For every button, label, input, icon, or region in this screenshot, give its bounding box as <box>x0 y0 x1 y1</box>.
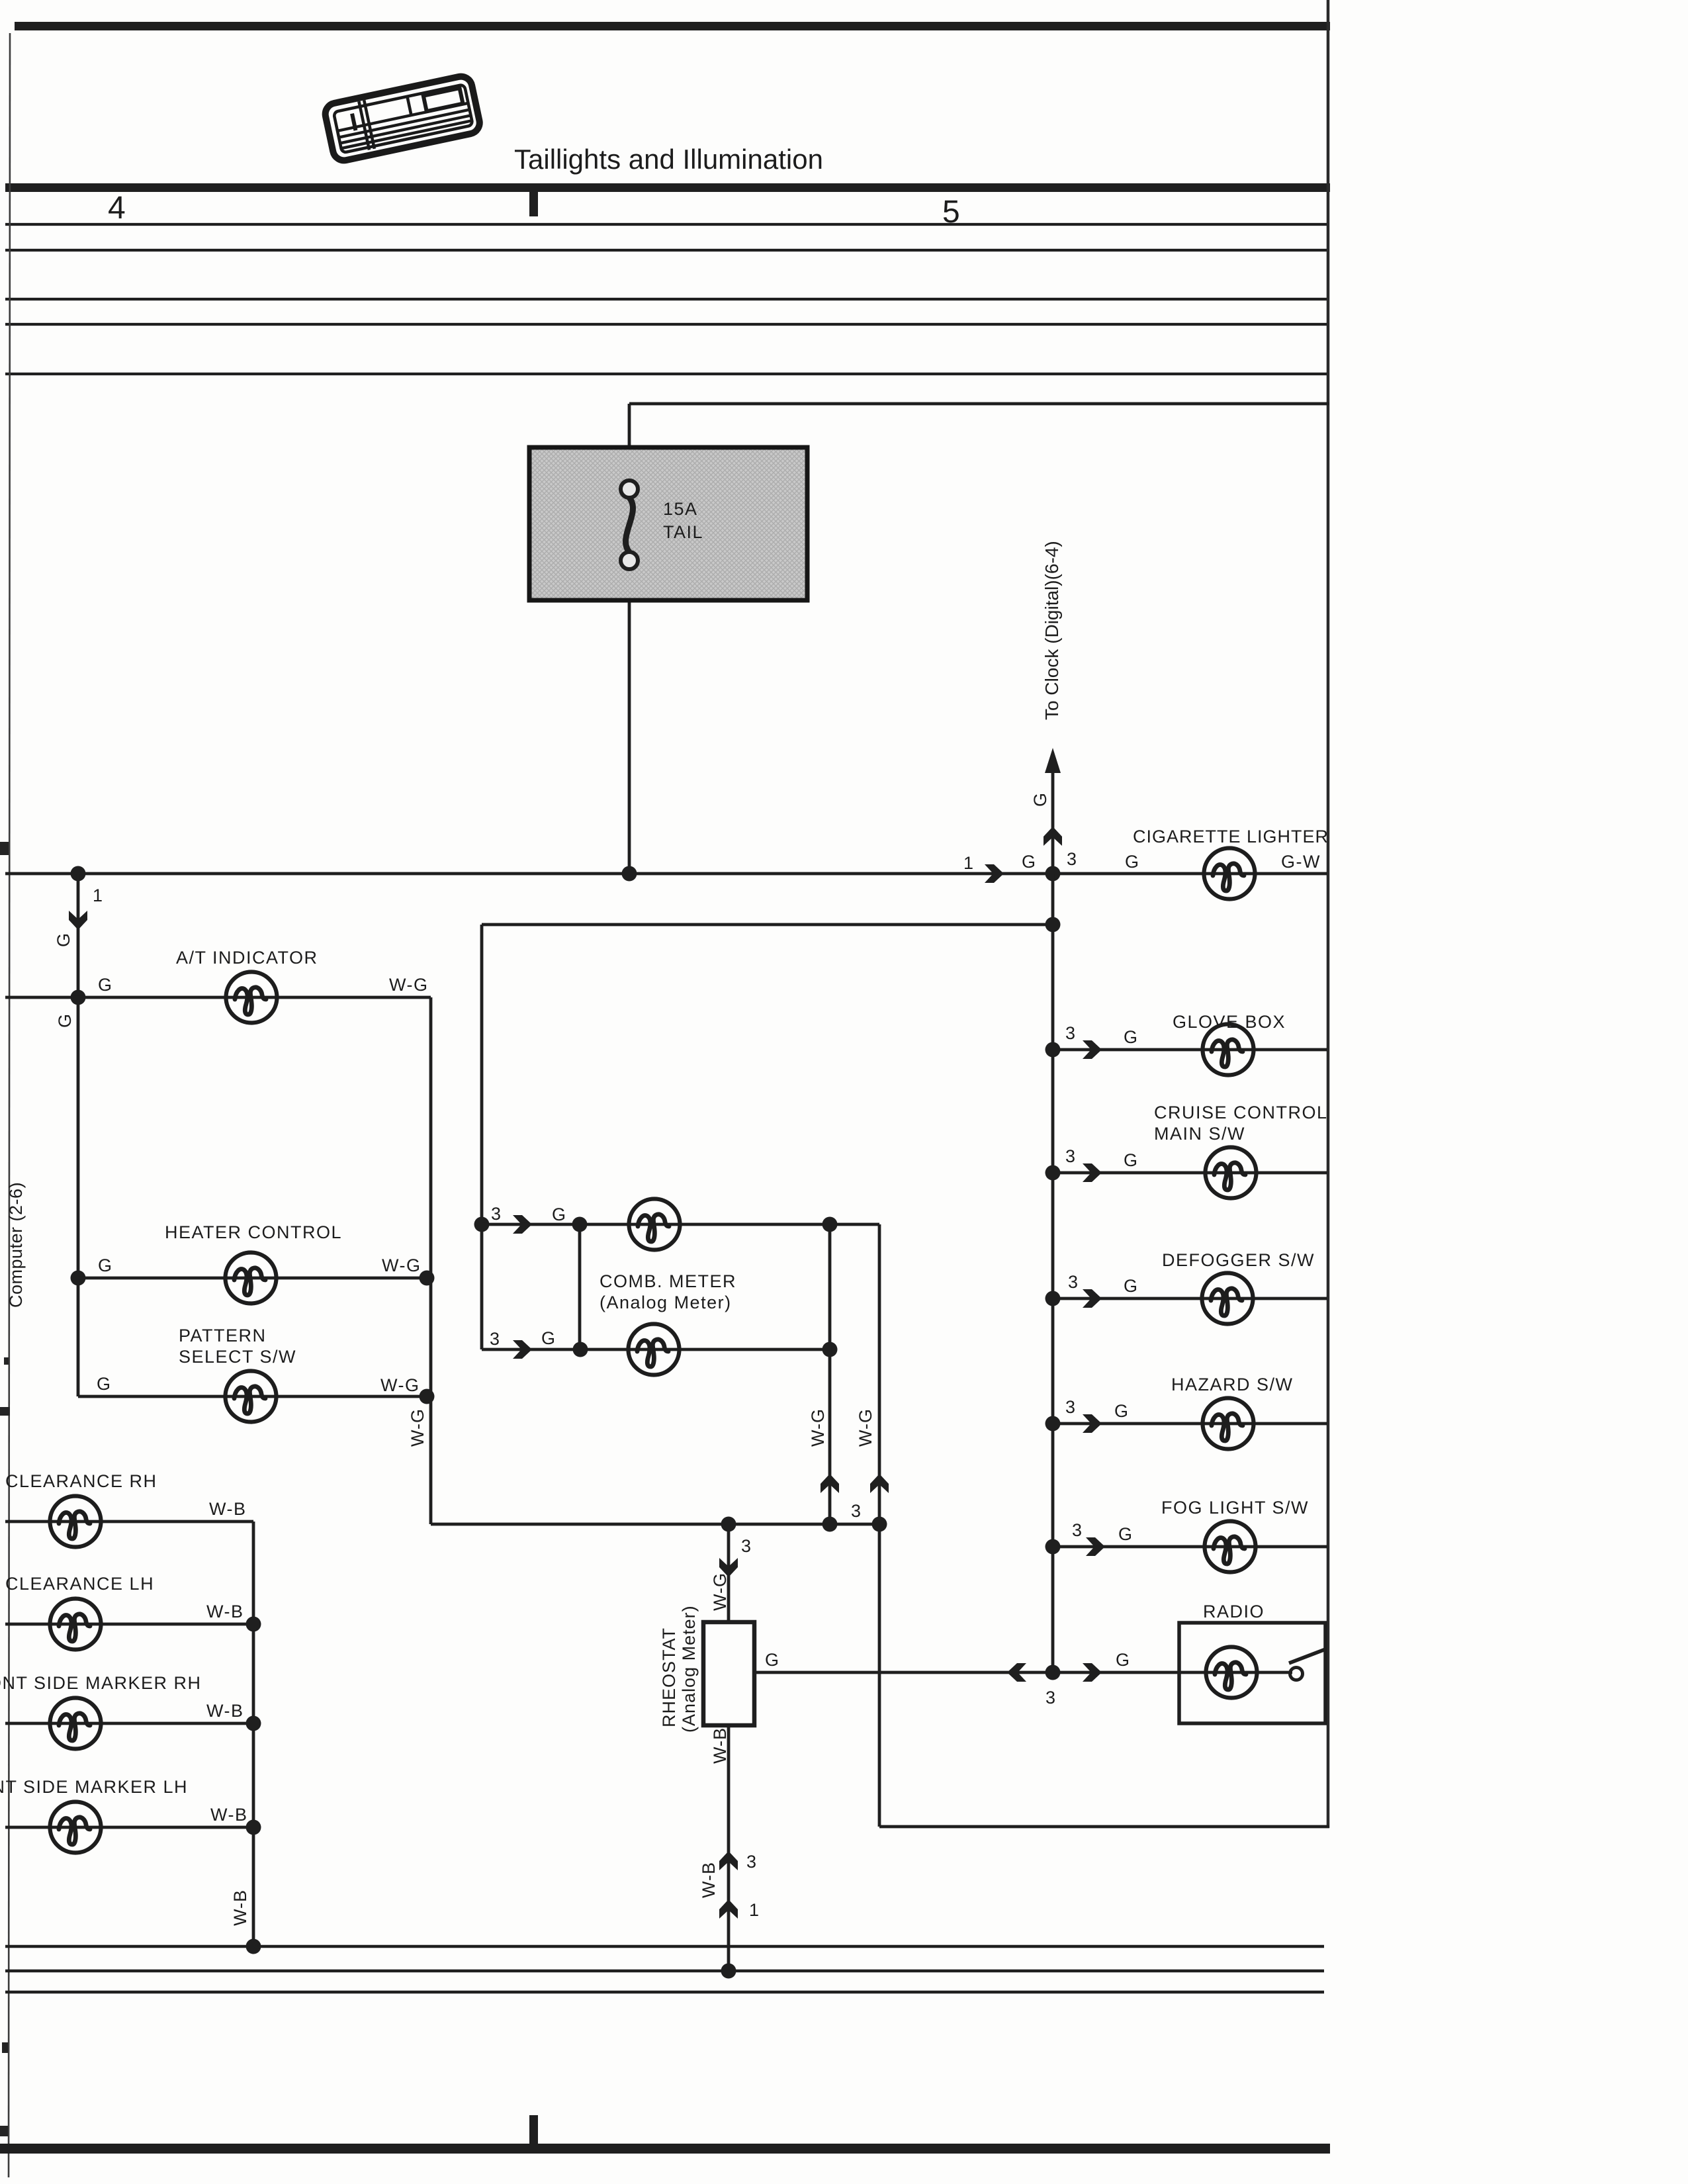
rheostat body <box>703 1622 754 1725</box>
lamp GLOVE BOX <box>1203 1024 1254 1075</box>
svg-text:G: G <box>1030 792 1050 807</box>
wire rheostat bottom lead <box>727 1725 731 1970</box>
connector arrow left from radio node <box>1007 1663 1026 1682</box>
svg-text:CIGARETTE LIGHTER: CIGARETTE LIGHTER <box>1133 827 1329 846</box>
svg-text:G: G <box>1116 1650 1131 1670</box>
node junction distribution/DEFOGGER S/W <box>1045 1291 1061 1306</box>
node junction comb upper right <box>822 1217 838 1232</box>
node junction left/AT indicator <box>71 990 86 1005</box>
node junction bus1/W-B collector <box>246 1939 261 1954</box>
node junction collector/drop2 <box>872 1517 887 1532</box>
node junction comb upper tap <box>474 1217 490 1232</box>
node junction left/heater <box>71 1271 86 1286</box>
svg-text:3: 3 <box>741 1536 752 1556</box>
wire FRONT SIDE MARKER LH feed <box>5 1826 253 1829</box>
wire W-B collector vertical <box>252 1522 255 1946</box>
node junction radio tap <box>1045 1665 1061 1680</box>
svg-text:W-B: W-B <box>699 1862 719 1898</box>
page top border bar <box>15 22 1330 30</box>
lamp CIGARETTE LIGHTER <box>1204 848 1255 899</box>
svg-text:1: 1 <box>93 886 104 905</box>
wire ground bus 2 <box>5 1970 1324 1972</box>
node junction main/left branch <box>71 866 86 882</box>
svg-text:3: 3 <box>1065 1397 1077 1417</box>
connector arrow up to clock <box>1044 827 1062 846</box>
svg-text:G: G <box>541 1328 556 1348</box>
lamp RADIO illumination lamp <box>1206 1647 1257 1698</box>
wire CLEARANCE LH feed <box>5 1623 253 1626</box>
connector arrow up drop 1 <box>821 1474 839 1493</box>
wire main feed <box>5 872 1327 876</box>
page right border line <box>1327 0 1330 1828</box>
svg-text:HEATER CONTROL: HEATER CONTROL <box>165 1222 342 1242</box>
svg-text:G: G <box>55 1013 75 1028</box>
svg-text:15A: 15A <box>663 499 698 519</box>
wire comb meter top link <box>482 923 1053 927</box>
svg-text:W-G: W-G <box>380 1375 420 1395</box>
wire top bus line 3 <box>5 298 1329 300</box>
wire fuse vertical <box>628 404 631 874</box>
svg-text:3: 3 <box>1065 1023 1077 1043</box>
node junction distribution/CRUISE CONTROL MAIN S/W <box>1045 1165 1061 1181</box>
connector arrow into DEFOGGER S/W <box>1083 1289 1102 1308</box>
svg-text:1: 1 <box>749 1900 760 1920</box>
svg-text:TAIL: TAIL <box>663 522 703 542</box>
svg-text:G-W: G-W <box>1281 852 1321 872</box>
svg-text:G: G <box>1118 1524 1133 1544</box>
svg-text:CLEARANCE RH: CLEARANCE RH <box>5 1471 157 1491</box>
connector arrow into GLOVE BOX <box>1083 1040 1102 1059</box>
svg-text:3: 3 <box>491 1204 502 1224</box>
wire FRONT SIDE MARKER RH feed <box>5 1722 253 1725</box>
fuse element symbol <box>626 498 633 552</box>
svg-text:RHEOSTAT: RHEOSTAT <box>659 1627 679 1727</box>
svg-text:SELECT S/W: SELECT S/W <box>179 1347 296 1367</box>
svg-text:CRUISE CONTROL: CRUISE CONTROL <box>1154 1103 1328 1122</box>
connector arrow main feed into zone 5 <box>985 864 1004 883</box>
svg-text:W-B: W-B <box>206 1602 244 1621</box>
svg-text:(Analog Meter): (Analog Meter) <box>679 1605 699 1733</box>
wire comb meter left vertical <box>480 925 484 1349</box>
svg-text:G: G <box>1124 1150 1139 1170</box>
svg-text:CLEARANCE LH: CLEARANCE LH <box>5 1574 154 1594</box>
wire comb meter lower lamp wire <box>482 1348 830 1351</box>
lamp CLEARANCE LH <box>50 1599 101 1650</box>
node junction comb lower right <box>822 1342 838 1357</box>
connector arrow into FOG LIGHT S/W <box>1086 1537 1105 1556</box>
wire W-G bus vertical (x=651) <box>429 997 433 1524</box>
node junction collector/rheostat <box>721 1517 736 1532</box>
node junction distribution/comb link <box>1045 917 1061 933</box>
wire distribution vertical <box>1051 874 1055 1672</box>
svg-text:3: 3 <box>851 1501 862 1521</box>
zone tick mark top <box>529 192 538 216</box>
svg-text:G: G <box>1022 852 1037 872</box>
svg-text:G: G <box>98 975 113 995</box>
svg-text:G: G <box>1124 1276 1139 1296</box>
radio switch contact <box>1290 1668 1303 1680</box>
svg-text:G: G <box>54 933 73 947</box>
node junction W-B/clearance LH <box>246 1617 261 1632</box>
node junction main/fuse <box>622 866 637 882</box>
wire GLOVE BOX feed <box>1053 1048 1327 1052</box>
svg-text:W-G: W-G <box>856 1408 875 1447</box>
wire fuse feed top <box>629 402 1329 406</box>
wire ground bus 3 <box>5 1991 1324 1993</box>
svg-text:W-G: W-G <box>382 1255 422 1275</box>
svg-text:FOG LIGHT S/W: FOG LIGHT S/W <box>1161 1498 1309 1518</box>
svg-text:FRONT SIDE MARKER LH: FRONT SIDE MARKER LH <box>0 1777 188 1797</box>
svg-text:GLOVE BOX: GLOVE BOX <box>1173 1012 1286 1032</box>
node junction distribution/FOG LIGHT S/W <box>1045 1539 1061 1555</box>
wire left branch vertical <box>77 874 80 1396</box>
svg-text:W-G: W-G <box>389 975 429 995</box>
wire W-G drop 1 (x=1254) <box>828 1224 832 1524</box>
svg-text:Taillights and Illumination: Taillights and Illumination <box>514 144 823 175</box>
lamp COMB. METER lower lamp <box>629 1324 680 1375</box>
lamp HEATER CONTROL <box>226 1253 277 1304</box>
svg-text:3: 3 <box>746 1852 758 1872</box>
svg-text:W-G: W-G <box>710 1572 730 1611</box>
svg-text:Computer (2-6): Computer (2-6) <box>6 1182 26 1308</box>
svg-text:3: 3 <box>490 1329 501 1349</box>
svg-text:W-G: W-G <box>808 1408 828 1447</box>
wire rheostat G output <box>754 1671 1292 1674</box>
wire comb meter inner vertical <box>578 1224 582 1349</box>
lamp HAZARD S/W <box>1203 1398 1254 1449</box>
node junction pattern/W-G bus <box>420 1389 435 1404</box>
connector arrow into comb meter lower <box>513 1340 532 1359</box>
off-page arrowhead to clock <box>1045 748 1061 773</box>
svg-text:(Analog Meter): (Analog Meter) <box>600 1293 732 1312</box>
wire top bus line 4 <box>5 323 1329 326</box>
wire top bus line 2 <box>5 249 1329 251</box>
connector arrow up drop 2 <box>870 1474 889 1493</box>
svg-text:W-B: W-B <box>206 1701 244 1721</box>
node junction W-B/marker LH <box>246 1820 261 1835</box>
lamp FRONT SIDE MARKER RH <box>50 1698 101 1749</box>
scan artifact marks <box>0 842 9 855</box>
wire top bus line 1 <box>5 223 1329 226</box>
svg-text:HAZARD S/W: HAZARD S/W <box>1171 1375 1294 1394</box>
lamp CLEARANCE RH <box>50 1496 101 1547</box>
wire to clock wire <box>1051 768 1055 874</box>
svg-text:W-B: W-B <box>230 1889 250 1926</box>
svg-text:RADIO: RADIO <box>1203 1602 1265 1621</box>
wire heater control feed <box>78 1277 427 1280</box>
taillight lens icon <box>324 74 482 162</box>
wire ground bus 1 <box>5 1945 1324 1948</box>
lamp FOG LIGHT S/W <box>1205 1522 1256 1572</box>
zone tick mark bottom <box>529 2115 538 2146</box>
svg-text:DEFOGGER S/W: DEFOGGER S/W <box>1162 1250 1315 1270</box>
node junction W-B/marker RH <box>246 1716 261 1731</box>
node junction comb upper left <box>572 1217 588 1232</box>
svg-text:G: G <box>97 1374 112 1394</box>
svg-text:G: G <box>1114 1401 1130 1421</box>
svg-text:G: G <box>552 1205 567 1224</box>
lamp FRONT SIDE MARKER LH <box>50 1802 101 1853</box>
svg-text:3: 3 <box>1065 1146 1077 1166</box>
lamp CRUISE CONTROL MAIN S/W <box>1206 1148 1257 1199</box>
connector arrow into radio <box>1083 1663 1102 1682</box>
svg-text:To Clock (Digital)(6-4): To Clock (Digital)(6-4) <box>1042 541 1062 720</box>
connector arrow up ground lead b <box>719 1899 738 1919</box>
lamp COMB. METER upper lamp <box>629 1199 680 1250</box>
wire CLEARANCE RH feed <box>5 1520 253 1524</box>
lamp DEFOGGER S/W <box>1202 1273 1253 1324</box>
svg-text:A/T INDICATOR: A/T INDICATOR <box>176 948 318 968</box>
svg-text:G: G <box>1124 1027 1139 1047</box>
svg-text:G: G <box>98 1255 113 1275</box>
wire HAZARD S/W feed <box>1053 1422 1327 1426</box>
wire FOG LIGHT S/W feed <box>1053 1545 1327 1549</box>
wire rheostat top lead <box>727 1524 731 1623</box>
svg-text:MAIN S/W: MAIN S/W <box>1154 1124 1245 1144</box>
lamp PATTERN SELECT S/W <box>226 1371 277 1422</box>
svg-text:4: 4 <box>108 191 126 226</box>
wire W-G drop 2 (x=1329) <box>878 1224 881 1827</box>
wire comb meter upper lamp wire <box>482 1223 879 1226</box>
svg-text:G: G <box>1125 852 1140 872</box>
svg-text:G: G <box>765 1650 780 1670</box>
connector arrow into CRUISE CONTROL MAIN S/W <box>1083 1163 1102 1182</box>
svg-text:W-B: W-B <box>710 1727 730 1764</box>
wire CRUISE CONTROL MAIN S/W feed <box>1053 1171 1327 1175</box>
node junction collector/drop1 <box>822 1517 838 1532</box>
wire illumination collector <box>431 1523 879 1526</box>
connector arrow down into left branch <box>69 911 87 930</box>
wire to next page (lower right) <box>879 1825 1329 1829</box>
svg-text:W-B: W-B <box>209 1499 247 1519</box>
radio box <box>1179 1623 1325 1723</box>
node junction distribution/GLOVE BOX <box>1045 1042 1061 1058</box>
scanned page left edge <box>9 33 10 2177</box>
node junction comb lower left <box>573 1342 588 1357</box>
fuse box 15A TAIL <box>529 447 807 600</box>
node junction distribution/HAZARD S/W <box>1045 1416 1061 1432</box>
node junction main/distribution <box>1045 866 1061 882</box>
svg-text:3: 3 <box>1045 1688 1057 1707</box>
radio switch lever <box>1289 1649 1325 1663</box>
connector arrow into HAZARD S/W <box>1083 1414 1102 1433</box>
zone divider bar <box>5 183 1330 192</box>
page bottom border bar <box>0 2144 1330 2154</box>
svg-text:COMB. METER: COMB. METER <box>600 1271 736 1291</box>
svg-text:FRONT SIDE MARKER RH: FRONT SIDE MARKER RH <box>0 1673 202 1693</box>
svg-text:3: 3 <box>1067 849 1078 869</box>
connector arrow up ground lead a <box>719 1851 738 1870</box>
connector arrow down to rheostat <box>719 1558 738 1577</box>
node junction heater/W-G bus <box>420 1271 435 1286</box>
svg-text:1: 1 <box>963 853 975 873</box>
svg-text:3: 3 <box>1072 1520 1083 1540</box>
svg-text:3: 3 <box>1068 1272 1079 1292</box>
lamp A/T INDICATOR <box>226 972 277 1023</box>
wire pattern select feed <box>78 1395 427 1398</box>
wire DEFOGGER S/W feed <box>1053 1297 1327 1300</box>
svg-text:PATTERN: PATTERN <box>179 1326 267 1345</box>
svg-text:W-G: W-G <box>408 1408 427 1447</box>
wire top bus line 5 <box>5 373 1329 375</box>
connector arrow into comb meter upper <box>513 1215 532 1234</box>
wire A/T indicator feed <box>5 996 431 999</box>
node junction bus2/rheostat ground <box>721 1964 736 1979</box>
svg-text:W-B: W-B <box>210 1805 248 1825</box>
